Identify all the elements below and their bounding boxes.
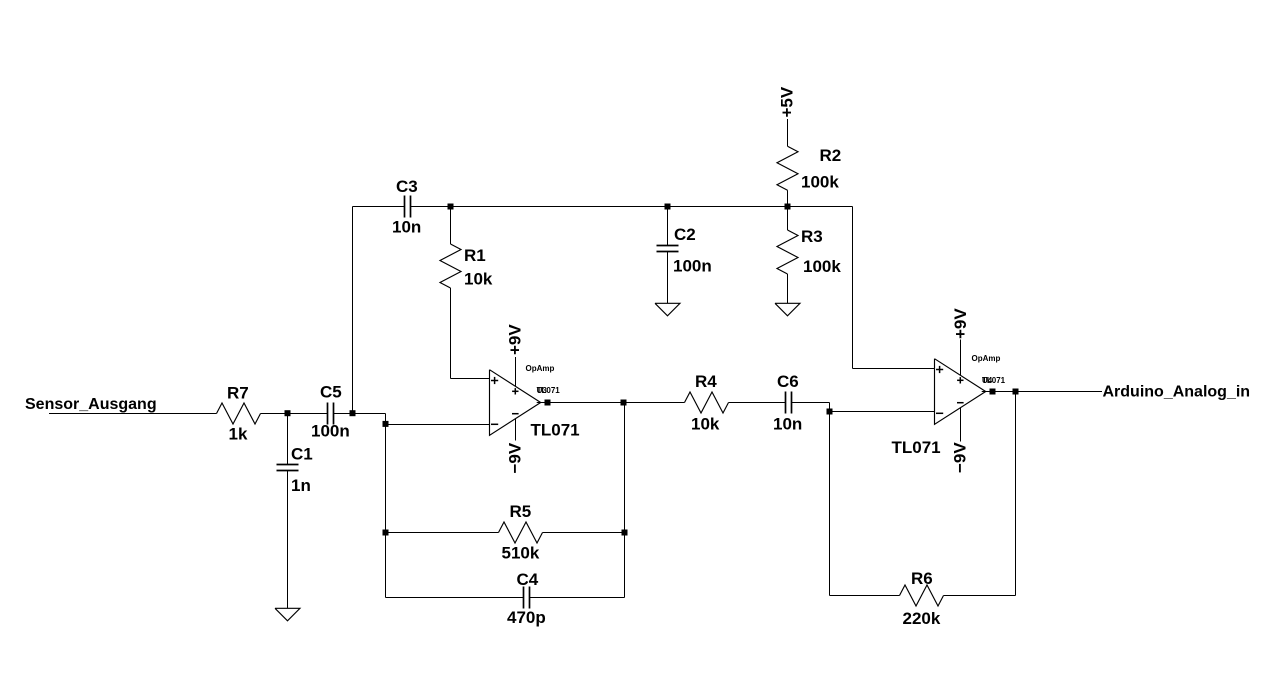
svg-text:100k: 100k (803, 257, 841, 276)
svg-text:100n: 100n (673, 257, 712, 276)
svg-text:10n: 10n (773, 415, 802, 434)
svg-text:100n: 100n (311, 422, 350, 441)
svg-text:U4: U4 (982, 376, 993, 385)
svg-text:R2: R2 (820, 146, 842, 165)
svg-text:+9V: +9V (951, 308, 970, 339)
svg-text:+5V: +5V (778, 86, 797, 117)
svg-text:R4: R4 (695, 372, 717, 391)
svg-text:−9V: −9V (951, 442, 970, 473)
svg-text:470p: 470p (507, 608, 546, 627)
svg-text:C1: C1 (291, 445, 313, 464)
svg-text:C6: C6 (777, 372, 799, 391)
svg-text:C5: C5 (320, 383, 342, 402)
svg-text:R6: R6 (911, 569, 933, 588)
svg-text:OpAmp: OpAmp (526, 364, 555, 373)
svg-text:OpAmp: OpAmp (972, 354, 1001, 363)
svg-text:1n: 1n (291, 476, 311, 495)
svg-text:TL071: TL071 (892, 438, 941, 457)
svg-text:Arduino_Analog_in: Arduino_Analog_in (1103, 384, 1251, 401)
svg-text:1k: 1k (229, 425, 248, 444)
svg-text:+9V: +9V (506, 324, 525, 355)
svg-text:R5: R5 (510, 502, 532, 521)
svg-text:R1: R1 (464, 246, 486, 265)
svg-text:R7: R7 (227, 384, 249, 403)
svg-text:R3: R3 (801, 227, 823, 246)
svg-text:C4: C4 (517, 570, 539, 589)
svg-text:Sensor_Ausgang: Sensor_Ausgang (25, 396, 157, 413)
svg-text:−9V: −9V (506, 442, 525, 473)
svg-text:10k: 10k (691, 415, 720, 434)
svg-text:100k: 100k (801, 173, 839, 192)
svg-text:C2: C2 (674, 225, 696, 244)
svg-text:220k: 220k (903, 609, 941, 628)
svg-text:10n: 10n (392, 218, 421, 237)
svg-text:U3: U3 (537, 386, 548, 395)
svg-text:10k: 10k (464, 270, 493, 289)
svg-text:510k: 510k (502, 544, 540, 563)
svg-text:TL071: TL071 (531, 421, 580, 440)
svg-text:C3: C3 (396, 177, 418, 196)
